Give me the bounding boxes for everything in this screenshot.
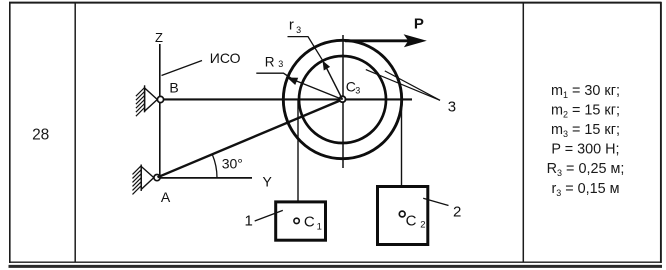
- svg-text:ИСО: ИСО: [210, 50, 241, 66]
- svg-text:Z: Z: [155, 30, 163, 45]
- Z axis line: [159, 44, 161, 178]
- wall support B base: [144, 85, 146, 112]
- svg-text:A: A: [161, 189, 171, 205]
- wall support B triangle: [145, 88, 158, 111]
- vertical center line: [342, 35, 344, 168]
- svg-text:P: P: [414, 16, 424, 33]
- label 3 leader line upper: [366, 70, 440, 101]
- wall support B hatching: [136, 88, 145, 117]
- label 3 leader line lower: [385, 71, 440, 100]
- pin B circle: [157, 96, 163, 102]
- svg-text:m3 = 15 кг;: m3 = 15 кг;: [551, 122, 620, 139]
- pulley outer circle: [283, 40, 401, 158]
- radius r3 arrowhead: [323, 61, 331, 71]
- column divider 2: [522, 2, 524, 262]
- svg-text:m2 = 15 кг;: m2 = 15 кг;: [551, 102, 620, 119]
- label 1 leader line: [255, 210, 283, 221]
- svg-text:3: 3: [448, 99, 456, 116]
- R3 leader line: [256, 73, 291, 78]
- label 2 leader line: [423, 198, 448, 205]
- block 2: [378, 187, 428, 245]
- force P arrow shaft: [345, 39, 409, 42]
- rod A to C3: [158, 100, 343, 178]
- table row bottom line: [9, 261, 661, 263]
- svg-text:Y: Y: [263, 174, 273, 190]
- r3 leader line: [288, 37, 323, 61]
- center C3 circle: [340, 96, 346, 102]
- svg-text:r: r: [289, 17, 294, 34]
- svg-text:C: C: [304, 214, 315, 231]
- Y axis line: [160, 177, 252, 179]
- svg-text:R: R: [265, 54, 275, 69]
- wall support A hatching: [133, 166, 142, 195]
- pin A circle: [154, 175, 160, 181]
- wall support A triangle: [141, 166, 154, 189]
- svg-text:C: C: [406, 213, 417, 230]
- svg-text:P = 300 Н;: P = 300 Н;: [551, 142, 619, 158]
- wall support A base: [140, 165, 142, 192]
- svg-text:1: 1: [317, 221, 322, 232]
- table thick bottom edge: [9, 265, 663, 268]
- force P arrowhead: [404, 34, 427, 47]
- C2 center circle: [399, 211, 405, 217]
- radius R3 arrowhead: [287, 78, 298, 86]
- svg-text:28: 28: [32, 127, 49, 144]
- table outer border right: [660, 2, 662, 263]
- svg-text:30°: 30°: [222, 156, 243, 172]
- block 1: [276, 202, 326, 240]
- rope to block 1: [297, 100, 299, 201]
- radius r3 arrow line: [327, 68, 343, 100]
- svg-text:3: 3: [278, 59, 283, 69]
- svg-text:1: 1: [245, 213, 253, 230]
- svg-text:B: B: [169, 80, 178, 96]
- svg-text:3: 3: [355, 85, 360, 95]
- ИСО leader line: [162, 61, 203, 76]
- given data text: [547, 83, 625, 198]
- svg-text:2: 2: [453, 204, 461, 221]
- radius R3 arrow line: [294, 80, 343, 100]
- table outer border left: [9, 2, 11, 263]
- pulley inner circle: [299, 56, 386, 143]
- 30 degree arc: [212, 155, 217, 178]
- C1 center circle: [294, 218, 299, 223]
- svg-text:m1 = 30 кг;: m1 = 30 кг;: [551, 83, 620, 100]
- svg-text:3: 3: [296, 25, 301, 35]
- column divider 1: [74, 2, 76, 262]
- svg-text:r3 = 0,15 м: r3 = 0,15 м: [551, 181, 619, 198]
- table outer border top: [9, 2, 662, 4]
- rope to block 2: [401, 100, 403, 186]
- horizontal center line B to C3: [164, 98, 412, 100]
- svg-text:2: 2: [420, 219, 425, 230]
